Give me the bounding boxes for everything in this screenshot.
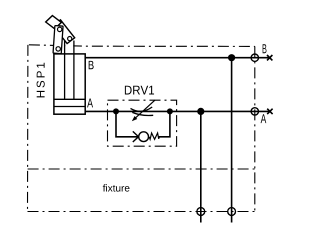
fixture feed-through circle left [197, 208, 205, 216]
valve DRV1 boundary box (dash-dot) [108, 100, 177, 146]
pivot hole arm [68, 37, 72, 41]
junction dot DRV1 right [167, 108, 173, 114]
left edge [27, 45, 29, 212]
label B port [263, 44, 267, 53]
piston line lower [54, 106, 85, 108]
divider line between circuit area and fixture [28, 168, 255, 170]
junction dot DRV1 left [113, 108, 119, 114]
port circle B [251, 54, 258, 61]
cylinder HSP1: piston rod [65, 41, 74, 100]
label HSP1 (vertical) [37, 63, 45, 98]
label DRV1 [125, 86, 154, 95]
port end marker B (x) [267, 55, 272, 60]
wire: B line from cylinder to port B [85, 57, 270, 59]
wire: vertical line from B junction down to fixture bottom [231, 58, 233, 223]
piston line upper [54, 98, 85, 100]
pivot hole link top [58, 27, 62, 31]
fixture feed-through circle right [228, 208, 236, 216]
check valve ball circle [139, 132, 149, 142]
clamp arm [53, 20, 75, 44]
port circle A [251, 108, 258, 115]
check valve seat [133, 131, 139, 142]
right edge [254, 46, 256, 211]
junction dot A line [197, 108, 204, 115]
outer machine boundary box (dash-dot) [28, 45, 255, 212]
wire: check valve bypass loop right [159, 111, 170, 136]
check valve spring [149, 133, 159, 139]
throttle DRV1 upper arc [131, 107, 153, 111]
bottom edge [28, 211, 255, 213]
port end marker A (x) [267, 109, 272, 114]
label A port [261, 114, 267, 123]
top edge [28, 45, 255, 47]
throttle DRV1 lower arc [132, 112, 153, 115]
wire: A line from cylinder through DRV1 to port A [85, 110, 270, 112]
clamp cap [46, 16, 62, 29]
link plate [53, 26, 63, 54]
label A at cylinder [87, 99, 93, 108]
junction dot B line [228, 54, 235, 61]
throttle adjustment arrow [135, 100, 156, 119]
label B at cylinder [89, 61, 94, 69]
fixture label [103, 184, 130, 191]
cylinder HSP1 body [54, 54, 85, 114]
wire: vertical line from A junction down to fixture bottom [200, 111, 202, 222]
pivot hole link bottom [56, 47, 60, 51]
wire: check valve bypass loop left [116, 111, 138, 136]
